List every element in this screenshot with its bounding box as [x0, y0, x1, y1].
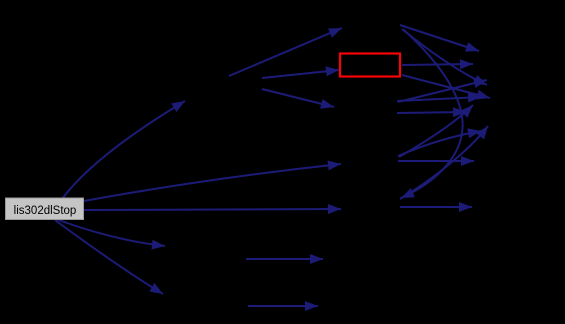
edge lis302dlStop -> node A (steep up-right arrow) [62, 101, 185, 199]
edge node C -> right node N5 (gentle up curve) [398, 131, 481, 156]
edge top node T -> right node N3 (steep line) [402, 29, 487, 85]
edge node D -> right node N7 (horizontal) [400, 206, 472, 208]
edge node B -> right node N3 (up-right) [398, 80, 487, 102]
svg-text:lis302dlStop: lis302dlStop [14, 205, 77, 217]
edge lis302dlStop -> node F (down-right arrow) [56, 219, 165, 246]
edge top node T -> right node N1 [400, 25, 479, 51]
edge node A -> top node T [229, 28, 342, 76]
edge node B2 -> right node N4b (horizontal) [397, 112, 466, 113]
edge lis302dlStop -> node D (long horizontal arrow) [84, 209, 341, 210]
edge node A -> red node (arrow into red box) [262, 70, 339, 78]
edge node A -> node B [262, 89, 334, 107]
edge lis302dlStop -> node G (steep down-right arrow) [55, 220, 163, 294]
edge red node -> right node N2 (horizontal) [402, 64, 473, 65]
edge lis302dlStop -> node C (long shallow up-right arrow) [84, 164, 341, 201]
edge node G -> bottom-right node (horizontal) [248, 305, 318, 307]
edge top node T -> node D (long arc around middle column) [401, 30, 463, 198]
edge node C -> right node N6 (horizontal) [398, 160, 474, 162]
edge node C -> right node N4 (up curve) [399, 105, 473, 157]
node lis302dlStop (gray filled box) [6, 198, 84, 220]
edge node D -> right node N5 (rising curve) [400, 126, 488, 199]
edge node B -> right node N4a (horizontal) [397, 97, 481, 101]
edge red node -> right node N3 (down-right) [402, 75, 490, 98]
highlighted node (red box, label hidden) [340, 54, 400, 77]
edge node F -> bottom-right node (horizontal) [246, 258, 323, 260]
